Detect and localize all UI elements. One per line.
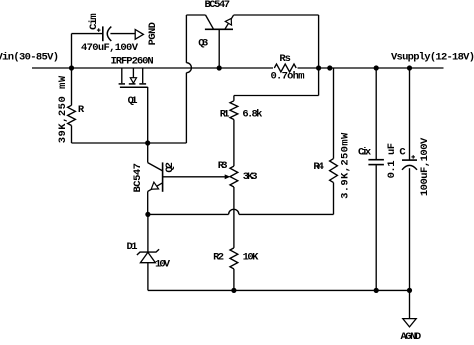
svg-text:BC547: BC547 (132, 163, 144, 193)
svg-text:R3: R3 (218, 160, 228, 172)
wire C bottom (409, 168, 411, 290)
wire Cix bottom (375, 165, 377, 290)
Q3 base lead (218, 29, 220, 68)
wire R2 bottom (233, 269, 235, 291)
plus mark C (411, 156, 415, 158)
wire D1 bottom (147, 263, 149, 291)
wire Vin junction up to Cim (71, 34, 73, 68)
svg-text:C: C (399, 147, 406, 159)
svg-text:Cim: Cim (88, 13, 100, 30)
power symbol PGND triangle (135, 30, 143, 40)
wire Q3 emitter to right loop (234, 14, 319, 16)
resistor R3 (trimmer) (230, 166, 238, 187)
Q2 base bar (162, 162, 164, 191)
svg-text:R1: R1 (220, 109, 230, 121)
junction C/rail (407, 65, 412, 70)
resistor R (68, 105, 76, 125)
Q2 wiper lead to R3 (163, 176, 226, 178)
svg-text:Cix: Cix (358, 147, 372, 159)
wire main rail Vin to Vsupply (32, 67, 444, 69)
Q3 collector diagonal (206, 15, 214, 29)
ground symbol AGND triangle (403, 319, 416, 327)
wire Q2 emitter down (147, 191, 149, 214)
capacitor Cim polarized plates (102, 26, 104, 41)
svg-text:6.8k: 6.8k (242, 109, 262, 121)
junction Cix/bottom wire (374, 288, 379, 293)
resistor R2 (230, 248, 238, 269)
junction Cix/rail (374, 65, 379, 70)
wire bottom D1 to AGND (148, 289, 410, 291)
wire R4 bottom (333, 183, 335, 215)
junction gate node (145, 140, 150, 145)
wire Q2 emitter node to R4, hops over R2 wire (148, 213, 229, 215)
wire top to Q3 collector (186, 14, 205, 16)
svg-text:Vsupply(12-18V): Vsupply(12-18V) (391, 52, 474, 64)
Q1 source stub (142, 68, 144, 83)
svg-text:Q3: Q3 (198, 37, 208, 49)
resistor Rs (273, 63, 298, 74)
svg-text:39K,250 mW: 39K,250 mW (57, 75, 69, 143)
svg-text:Rs: Rs (279, 53, 291, 65)
wire rail down to C (409, 68, 411, 160)
junction Vin/Cim/R (69, 65, 74, 70)
junction loop/rail (316, 65, 321, 70)
svg-text:IRFP260N: IRFP260N (111, 56, 154, 68)
D1 anode triangle (140, 252, 155, 262)
svg-text:D1: D1 (127, 241, 138, 253)
svg-text:R2: R2 (213, 252, 224, 264)
svg-text:470uF,100V: 470uF,100V (81, 42, 139, 54)
svg-text:AGND: AGND (401, 331, 422, 340)
svg-text:R4: R4 (313, 161, 324, 173)
wire rail down to Cix (375, 68, 377, 159)
junction R4/rail (327, 65, 332, 70)
Q1 gate bar (120, 86, 148, 88)
svg-text:Q1: Q1 (128, 95, 138, 107)
wire Q1 gate down (147, 87, 149, 163)
wire down to AGND (409, 290, 411, 318)
D1 cathode bar with zener tails (137, 249, 159, 255)
svg-text:10K: 10K (243, 252, 259, 264)
resistor R1 (230, 101, 238, 120)
capacitor C polarized plates (402, 159, 417, 161)
Q2 collector diagonal (148, 163, 163, 171)
wire right loop vertical (318, 15, 320, 96)
capacitor Cix plates (368, 159, 384, 161)
wire to D1 (147, 214, 149, 251)
wire Cim to PGND (110, 33, 135, 35)
svg-text:Vin(30-85V): Vin(30-85V) (0, 52, 59, 64)
wire loop bottom to R1 top (234, 95, 319, 97)
wire rail down to R4 (333, 68, 335, 159)
svg-text:0.1 uF: 0.1 uF (386, 143, 398, 179)
svg-text:3K3: 3K3 (243, 171, 258, 183)
plus mark Cim (97, 29, 101, 31)
wire R1 to R3 (233, 120, 235, 167)
wire R3 to R2 (233, 187, 235, 248)
svg-text:3.9K,250mW: 3.9K,250mW (339, 132, 351, 199)
Q1 body arrow (132, 68, 134, 78)
junction Q3 base/rail (217, 65, 222, 70)
svg-text:0.7ohm: 0.7ohm (271, 71, 305, 83)
junction R2/bottom wire (231, 288, 236, 293)
Q2 emitter diagonal with arrow (148, 183, 163, 192)
resistor R4 (330, 159, 338, 183)
wire Q3 collector down, hops over rail (185, 15, 187, 63)
svg-text:BC547: BC547 (205, 0, 231, 11)
svg-text:Q2: Q2 (164, 162, 176, 173)
wire R bottom to gate node (71, 126, 73, 144)
Q1 drain stub (121, 68, 123, 83)
svg-text:PGND: PGND (147, 22, 159, 45)
svg-text:100uF,100V: 100uF,100V (419, 137, 431, 196)
Q3 base bar (205, 28, 233, 30)
svg-text:10V: 10V (155, 259, 171, 271)
svg-text:R: R (78, 104, 85, 116)
Q3 emitter diagonal with arrow (225, 15, 234, 29)
junction Q2 emitter/D1/wire (145, 212, 150, 217)
junction C/AGND (407, 288, 412, 293)
wire rail down to R (71, 68, 73, 105)
